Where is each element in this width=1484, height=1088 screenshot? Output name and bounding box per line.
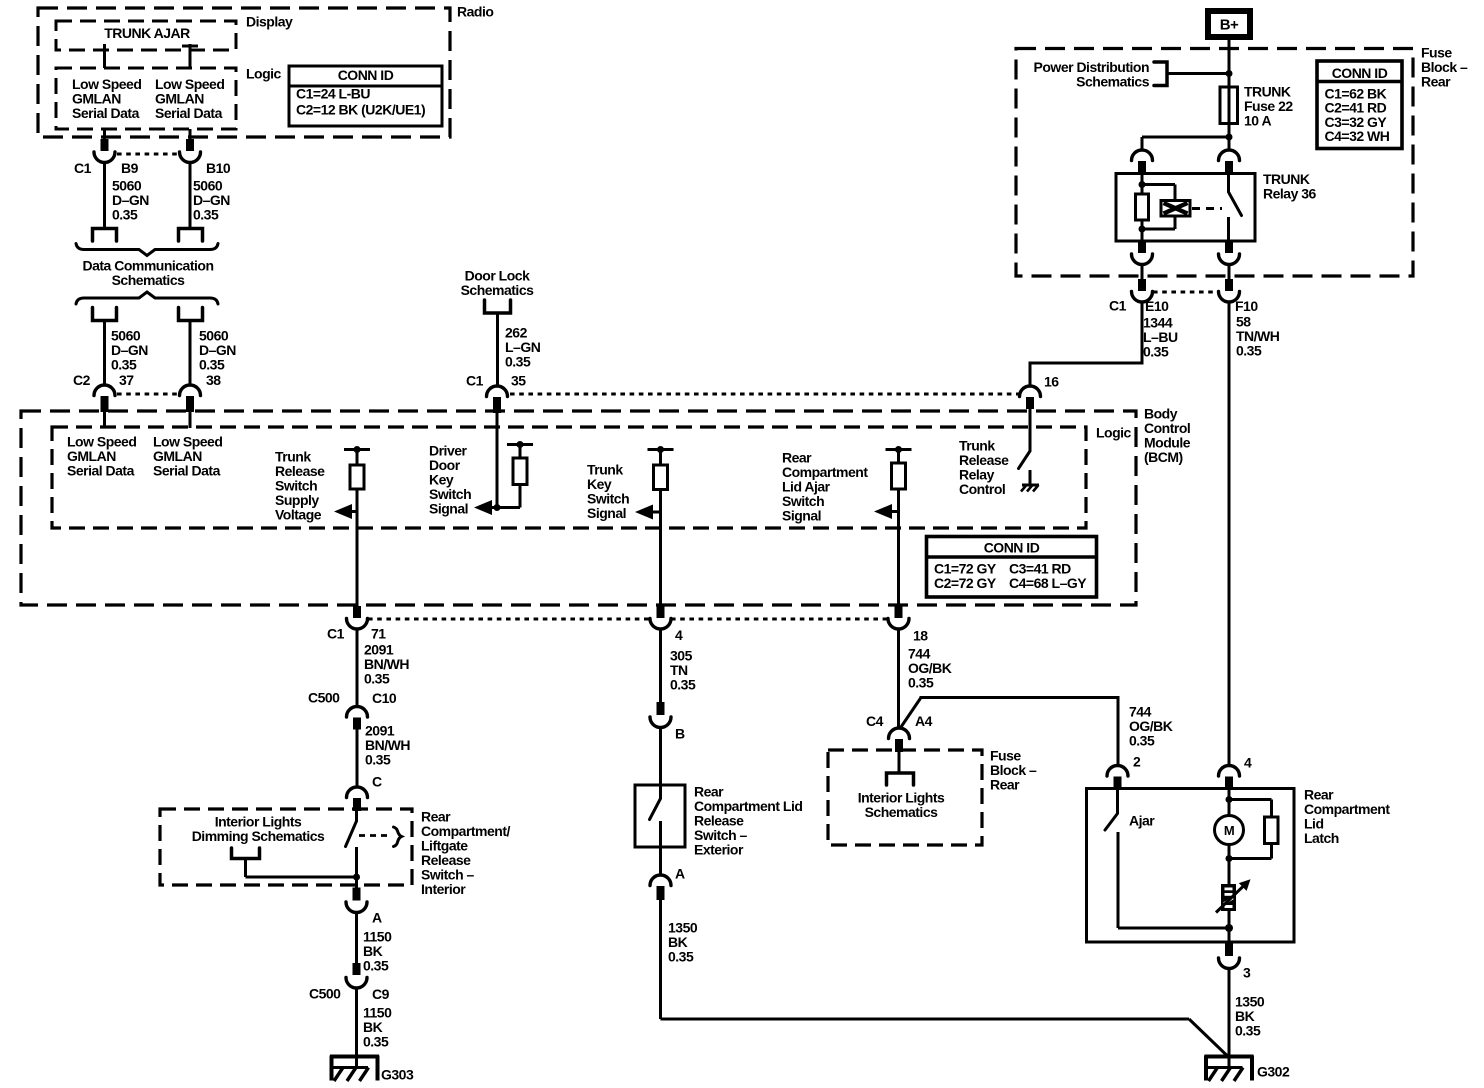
connector pin B (exterior switch) <box>657 702 665 715</box>
connector pin relay 85 <box>1138 241 1146 253</box>
wire display to logic left <box>103 44 106 68</box>
svg-text:71: 71 <box>371 626 386 642</box>
svg-text:C500: C500 <box>309 986 341 1002</box>
svg-text:G302: G302 <box>1257 1064 1290 1080</box>
BCM logic dashed box <box>52 427 1086 528</box>
svg-text:Rear: Rear <box>1421 74 1451 90</box>
svg-text:B+: B+ <box>1220 17 1239 34</box>
relay coil branch <box>1141 173 1144 194</box>
svg-text:Dimming Schematics: Dimming Schematics <box>192 828 325 844</box>
svg-text:0.35: 0.35 <box>363 1034 389 1050</box>
svg-text:E10: E10 <box>1145 298 1169 314</box>
wire power distribution tap <box>1167 72 1229 75</box>
wire 5060 D-GN right lower <box>189 321 192 387</box>
svg-text:C: C <box>372 774 382 790</box>
svg-text:0.35: 0.35 <box>1129 733 1155 749</box>
wire serial data into BCM left <box>103 411 106 428</box>
wire trunk release relay control into BCM <box>1029 408 1032 451</box>
wire 2091 BN/WH upper <box>356 629 359 706</box>
pull-up resistor (trunk key switch) <box>648 448 674 451</box>
svg-text:C4=32 WH: C4=32 WH <box>1325 128 1390 144</box>
svg-text:Serial Data: Serial Data <box>153 463 221 479</box>
junction below fuse <box>1226 134 1233 141</box>
wire display to logic right <box>189 44 192 68</box>
connector C1 pin E10 <box>1138 279 1146 291</box>
svg-text:C1=24 L-BU: C1=24 L-BU <box>296 86 370 102</box>
svg-text:C1: C1 <box>1109 298 1127 314</box>
svg-text:0.35: 0.35 <box>1143 344 1169 360</box>
signal arrow (driver door key switch signal) <box>486 506 520 509</box>
svg-text:0.35: 0.35 <box>670 677 696 693</box>
wire relay to fuse block edge right <box>1228 265 1231 281</box>
connector body dotted link BCM bottom right <box>671 618 888 621</box>
wire 35 to arrow junction <box>496 410 499 508</box>
connector body dotted link BCM top <box>510 393 1019 396</box>
svg-text:CONN ID: CONN ID <box>338 67 394 83</box>
wire 5060 D-GN right upper <box>189 163 192 229</box>
wire radio serial data left stub <box>103 129 106 140</box>
body control module outer dashed box <box>21 411 1136 605</box>
wire F10 to latch connector 4 <box>1228 302 1231 766</box>
wire 305 TN <box>659 629 662 703</box>
svg-text:0.35: 0.35 <box>1236 343 1262 359</box>
wire 1350 BK (exterior) <box>659 900 662 1019</box>
connector C500 pin C10 <box>347 707 368 718</box>
ground G302 <box>1205 1055 1254 1059</box>
svg-text:0.35: 0.35 <box>199 357 225 373</box>
switch actuator dashed link <box>359 834 391 837</box>
svg-text:2: 2 <box>1133 754 1141 770</box>
svg-text:Voltage: Voltage <box>275 507 322 523</box>
BCM CONN ID table <box>927 537 1097 598</box>
connector body dotted link C1 <box>117 153 178 156</box>
wire latch motor feed <box>1228 789 1231 816</box>
radio CONN ID table <box>289 66 442 126</box>
svg-text:Rear: Rear <box>990 777 1020 793</box>
svg-text:B: B <box>675 726 685 742</box>
svg-text:C9: C9 <box>372 986 390 1002</box>
wire E10 to 16 horizontal <box>1030 362 1144 365</box>
interior release switch dashed box <box>160 809 412 885</box>
svg-text:(BCM): (BCM) <box>1144 449 1183 465</box>
rear compartment lid latch box <box>1087 789 1295 943</box>
svg-text:Schematics: Schematics <box>461 282 535 298</box>
connector C1 pin B10 <box>186 139 194 151</box>
svg-text:0.35: 0.35 <box>111 357 137 373</box>
svg-text:18: 18 <box>913 628 928 644</box>
wire 1150 BK upper <box>355 913 358 965</box>
junction latch motor bottom <box>1226 855 1233 862</box>
wire B to exterior switch <box>659 728 662 787</box>
wire lid ajar switch signal to connector 18 <box>897 512 900 608</box>
latch actuator element <box>1221 884 1236 911</box>
off-page bracket (interior lights dimming) <box>232 848 260 859</box>
off-page bracket left (from data communication) <box>93 308 117 321</box>
wire motor parallel resistor branch <box>1229 798 1272 801</box>
connector C1 pin B9 <box>101 139 109 151</box>
wire E10 to 16 vertical <box>1141 301 1144 363</box>
wire B+ to fuse <box>1228 37 1231 88</box>
connector C500 pin C9 <box>353 963 361 975</box>
svg-text:CONN ID: CONN ID <box>1332 65 1388 81</box>
svg-text:0.35: 0.35 <box>193 207 219 223</box>
trunk relay 36 box <box>1116 174 1255 242</box>
svg-text:C2=72 GY: C2=72 GY <box>934 575 997 591</box>
svg-text:Control: Control <box>959 481 1005 497</box>
svg-text:Radio: Radio <box>457 4 493 20</box>
off-page bracket (door lock schematics) <box>485 300 511 313</box>
off-page bracket right (to data communication) <box>179 229 203 242</box>
signal arrow (trunk release switch supply voltage) <box>346 510 357 513</box>
svg-text:4: 4 <box>1244 755 1252 771</box>
svg-text:Latch: Latch <box>1304 830 1339 846</box>
junction interior switch <box>353 874 360 881</box>
brace upper (data communication schematics) <box>76 244 218 256</box>
svg-text:C2: C2 <box>73 372 91 388</box>
switch trunk release relay control <box>1019 451 1031 469</box>
wire 5060 D-GN left lower <box>103 321 106 387</box>
connector pin C (interior switch) <box>347 787 368 797</box>
connector C4 pin A4 <box>889 728 910 739</box>
connector pin relay 86 <box>1132 150 1153 161</box>
svg-text:0.35: 0.35 <box>364 671 390 687</box>
relay resistor <box>1136 194 1149 220</box>
relay switch <box>1227 173 1230 192</box>
connector body dotted link C2 <box>117 393 178 396</box>
connector pin A (interior switch) <box>353 888 361 901</box>
svg-text:B9: B9 <box>121 160 139 176</box>
svg-text:0.35: 0.35 <box>1235 1023 1261 1039</box>
wire dimming to switch contact <box>244 859 247 878</box>
radio module dashed box <box>38 8 450 137</box>
svg-text:38: 38 <box>206 372 221 388</box>
connector pin A (exterior switch) <box>650 875 671 886</box>
svg-text:Display: Display <box>246 14 293 30</box>
connector C1 pin 35 <box>487 386 508 397</box>
svg-text:C1: C1 <box>74 160 92 176</box>
svg-text:Signal: Signal <box>587 505 626 521</box>
svg-text:Serial Data: Serial Data <box>72 105 140 121</box>
connector body dotted link fuse block <box>1153 291 1218 294</box>
wire 744 branch diagonal <box>901 698 921 728</box>
fuse block rear dashed box <box>1016 49 1413 277</box>
svg-text:TRUNK AJAR: TRUNK AJAR <box>104 25 190 41</box>
wire serial data into BCM right <box>189 411 192 428</box>
junction power distribution <box>1226 70 1233 77</box>
radio display dashed box <box>56 21 236 50</box>
resistor (latch) <box>1265 817 1279 844</box>
connector C2 pin 37 <box>94 385 115 396</box>
wire 262 L-GN <box>496 313 499 386</box>
svg-text:0.35: 0.35 <box>505 354 531 370</box>
svg-text:Interior: Interior <box>421 881 466 897</box>
svg-text:4: 4 <box>675 627 683 643</box>
off-page bracket left (to data communication) <box>93 229 117 242</box>
interior lights fuse block dashed box <box>828 750 982 845</box>
svg-text:CONN ID: CONN ID <box>984 540 1040 556</box>
svg-text:0.35: 0.35 <box>908 675 934 691</box>
svg-text:B10: B10 <box>206 160 231 176</box>
wire radio serial data right stub <box>189 129 192 140</box>
svg-text:G303: G303 <box>381 1067 414 1083</box>
off-page bracket right (from data communication) <box>179 308 203 321</box>
svg-text:Ajar: Ajar <box>1129 813 1155 829</box>
junction latch motor top <box>1226 796 1233 803</box>
svg-text:35: 35 <box>511 373 526 389</box>
svg-text:16: 16 <box>1044 374 1059 390</box>
svg-text:A: A <box>372 910 382 926</box>
svg-text:Schematics: Schematics <box>112 272 186 288</box>
battery feed B+ box <box>1208 11 1250 37</box>
wire 2091 BN/WH lower <box>356 729 359 786</box>
wire 1150 BK lower <box>355 988 358 1067</box>
svg-text:C2=12 BK (U2K/UE1): C2=12 BK (U2K/UE1) <box>296 102 425 118</box>
svg-text:C1: C1 <box>466 373 484 389</box>
svg-text:Logic: Logic <box>246 66 282 82</box>
off-page bracket (power distribution) <box>1154 62 1167 86</box>
junction driver door key switch signal <box>494 504 501 511</box>
wire interior switch lower contact <box>355 847 358 888</box>
wire into interior lights schematics <box>898 752 901 774</box>
switch blade (interior release switch) <box>355 811 358 821</box>
wire ajar switch lower contact <box>1117 832 1120 928</box>
motor M (latch) <box>1228 845 1231 885</box>
ajar switch (latch) <box>1116 789 1119 814</box>
connector C1 pin 16 <box>1020 386 1041 397</box>
svg-text:Logic: Logic <box>1096 425 1132 441</box>
fuse block CONN ID table <box>1317 61 1402 149</box>
signal arrow (trunk key switch signal) <box>647 511 661 514</box>
pull-up resistor (trunk release switch supply) <box>344 448 370 451</box>
svg-text:Serial Data: Serial Data <box>67 463 135 479</box>
off-page bracket (interior lights schematics) <box>887 773 914 785</box>
wire trunk release supply to connector 71 <box>356 512 359 608</box>
svg-text:C4=68 L–GY: C4=68 L–GY <box>1009 575 1087 591</box>
pull-up resistor (driver door key switch) <box>507 443 533 446</box>
wire trunk key switch signal to connector 4 <box>659 512 662 607</box>
svg-text:3: 3 <box>1243 965 1251 981</box>
connector body dotted link BCM bottom left <box>368 618 650 621</box>
svg-text:Serial Data: Serial Data <box>155 105 223 121</box>
pull-up resistor (lid ajar switch) <box>886 448 912 451</box>
svg-text:37: 37 <box>119 372 134 388</box>
connector pin 18 (BCM) <box>895 606 903 618</box>
connector pin 4 (latch) <box>1219 766 1240 777</box>
svg-text:Exterior: Exterior <box>694 842 744 858</box>
svg-text:Signal: Signal <box>782 508 821 524</box>
junction latch output <box>1228 911 1231 942</box>
wire 5060 D-GN left upper <box>103 163 106 229</box>
connector pin 3 (latch) <box>1225 942 1233 956</box>
svg-text:A: A <box>675 866 685 882</box>
connector C1 pin F10 <box>1225 279 1233 291</box>
wire exterior switch lower contact <box>659 821 662 875</box>
connector pin 4 (BCM) <box>657 606 665 618</box>
brace lower (data communication schematics) <box>76 292 218 304</box>
svg-text:0.35: 0.35 <box>112 207 138 223</box>
svg-text:C4: C4 <box>866 713 884 729</box>
svg-text:Signal: Signal <box>429 501 468 517</box>
switch blade (exterior release switch) <box>659 785 662 799</box>
connector pin 2 (latch) <box>1107 766 1128 777</box>
wire fuse to relay branch <box>1142 136 1229 139</box>
connector pin relay 30 <box>1219 150 1240 161</box>
svg-text:0.35: 0.35 <box>668 949 694 965</box>
logic ground (BCM) <box>1029 470 1032 485</box>
latch actuator arrow <box>1216 886 1244 913</box>
svg-text:C500: C500 <box>308 690 340 706</box>
svg-text:C1: C1 <box>327 626 345 642</box>
exterior release switch box <box>635 785 685 847</box>
svg-text:0.35: 0.35 <box>365 752 391 768</box>
wire resistor branch lower <box>1270 844 1273 859</box>
signal arrow (lid ajar switch signal) <box>886 510 899 513</box>
switch actuator curl <box>394 827 402 847</box>
svg-text:F10: F10 <box>1235 298 1258 314</box>
svg-text:M: M <box>1224 823 1234 838</box>
wire 744 OG/BK <box>897 629 900 727</box>
connector pin relay 87 <box>1225 241 1233 253</box>
wire 1350 BK (latch) <box>1228 969 1231 1068</box>
connector C2 pin 38 <box>180 385 201 396</box>
svg-text:Schematics: Schematics <box>1076 74 1150 90</box>
relay actuation dashed link <box>1192 207 1222 210</box>
svg-text:A4: A4 <box>915 713 933 729</box>
svg-text:Relay 36: Relay 36 <box>1263 186 1317 202</box>
svg-text:C10: C10 <box>372 690 397 706</box>
wire relay to fuse block edge left <box>1141 265 1144 281</box>
svg-text:10 A: 10 A <box>1244 113 1271 129</box>
relay coil <box>1161 201 1190 217</box>
fuse TRUNK Fuse 22 10A <box>1220 87 1238 124</box>
svg-text:Schematics: Schematics <box>865 804 939 820</box>
ground G303 <box>330 1055 379 1059</box>
connector C1 pin 71 <box>353 606 361 618</box>
radio logic dashed box <box>56 68 236 129</box>
wire exterior switch ground run <box>661 1018 1190 1021</box>
svg-text:0.35: 0.35 <box>363 958 389 974</box>
